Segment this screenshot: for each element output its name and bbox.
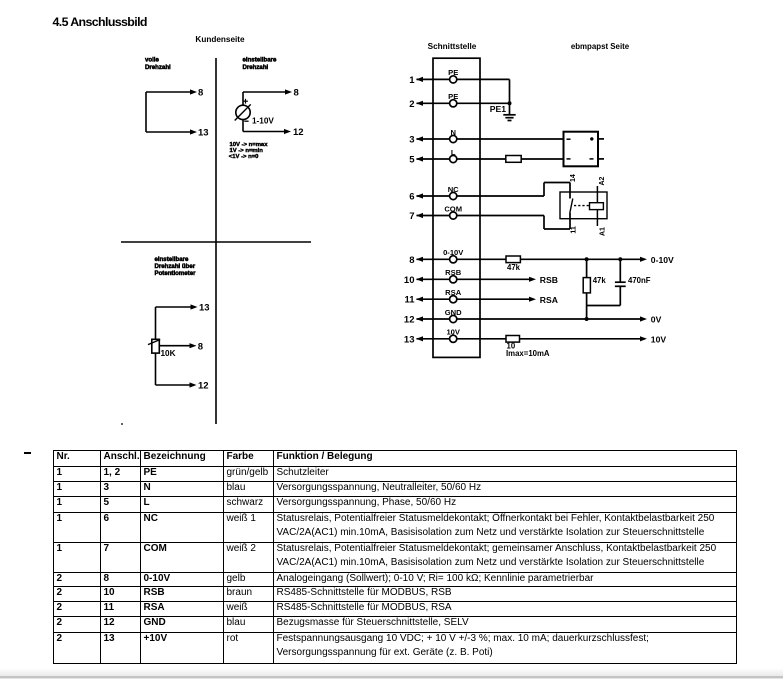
terminal circle pin 10 (450, 276, 457, 283)
terminal circle pin 11 (450, 296, 457, 303)
svg-text:COM: COM (444, 204, 462, 213)
svg-text:11: 11 (570, 226, 577, 234)
node 13 (full speed) (190, 128, 209, 139)
wire potentiometer top to 13 (156, 307, 192, 339)
node 8 (full speed) (190, 88, 203, 99)
svg-text:einstellbare: einstellbare (155, 256, 189, 263)
potentiometer R 10K (148, 339, 160, 353)
svg-text:3: 3 (409, 135, 414, 146)
terminal circle pin 6 (450, 192, 457, 199)
terminal circle pin 7 (450, 212, 457, 219)
arrow pin 8 (416, 257, 423, 262)
relay actuator block (590, 203, 604, 210)
svg-text:RSB: RSB (540, 275, 558, 285)
svg-text:8: 8 (409, 255, 414, 266)
label volle Drehzahl (145, 56, 171, 71)
svg-text:Drehzahl: Drehzahl (145, 64, 171, 71)
wire RC bottom bus (587, 306, 621, 320)
node 10V output (640, 334, 666, 344)
junction dot A (585, 257, 589, 261)
svg-text:Drehzahl: Drehzahl (243, 64, 269, 71)
label Schnittstelle (428, 42, 477, 51)
svg-text:2: 2 (409, 99, 414, 110)
svg-text:13: 13 (404, 334, 415, 345)
svg-text:N: N (450, 128, 455, 137)
svg-text:5: 5 (409, 155, 415, 166)
svg-text:einstellbare: einstellbare (243, 56, 277, 63)
wire full-speed bracket (146, 92, 191, 132)
arrow pin 6 (416, 193, 423, 198)
capacitor 470nF (615, 259, 626, 305)
svg-text:RSB: RSB (445, 268, 462, 277)
svg-text:PE: PE (448, 68, 458, 77)
speck (121, 423, 123, 425)
terminal circle pin 2 (450, 100, 457, 107)
terminal circle pin 3 (450, 135, 457, 142)
svg-text:10V: 10V (651, 334, 667, 344)
wire A2 (596, 186, 598, 203)
svg-text:RSA: RSA (445, 288, 462, 297)
svg-text:Imax=10mA: Imax=10mA (506, 349, 550, 358)
svg-text:0-10V: 0-10V (651, 255, 674, 265)
resistor 10 series (506, 336, 520, 343)
svg-text:6: 6 (409, 192, 414, 203)
svg-text:RSA: RSA (540, 295, 558, 305)
terminal circle pin 8 (450, 256, 457, 263)
value label 1-10V (252, 117, 274, 126)
pin 3 N row (417, 138, 564, 140)
svg-text:13: 13 (198, 128, 209, 139)
arrow pin 1 (416, 77, 423, 82)
terminal circle pin 12 (450, 315, 457, 322)
pin 2 PE row (417, 102, 510, 104)
resistor 47k series (506, 256, 520, 263)
junction dot C (585, 317, 589, 321)
svg-text:1-10V: 1-10V (252, 117, 274, 126)
label Imax=10mA (506, 349, 550, 358)
arrow pin 12 (416, 316, 423, 321)
svg-text:GND: GND (445, 308, 462, 317)
voltage source V1 1-10V (235, 104, 251, 120)
svg-text:12: 12 (198, 381, 209, 392)
pin 5 L row (417, 158, 564, 160)
divider vertical line (Kundenseite) (215, 58, 217, 424)
interface box (Schnittstelle) (433, 58, 480, 357)
wire potentiometer wiper to 8 (159, 345, 190, 347)
svg-text:10: 10 (404, 275, 415, 286)
wire voltage source to 12 (243, 120, 285, 132)
svg-text:10K: 10K (161, 349, 176, 358)
margin dash (24, 452, 32, 455)
node 13 (potentiometer) (191, 303, 210, 314)
wire potentiometer bottom to 12 (156, 353, 191, 385)
node 12 (adjustable) (284, 127, 304, 138)
minus sign (244, 120, 248, 122)
svg-text:8: 8 (294, 88, 299, 99)
svg-text:10V: 10V (446, 328, 460, 337)
arrow pin 3 (416, 136, 423, 141)
svg-text:0-10V: 0-10V (443, 248, 464, 257)
ground (503, 115, 515, 121)
label einstellbare Drehzahl ueber Potentiometer (155, 256, 197, 277)
pin 10 RSB row (417, 278, 531, 280)
relay K1 box (560, 192, 607, 219)
arrow pin 7 (416, 213, 423, 218)
terminal circle pin 13 (450, 335, 457, 342)
svg-text:ebmpapst Seite: ebmpapst Seite (571, 42, 630, 51)
svg-text:Kundenseite: Kundenseite (195, 35, 245, 44)
svg-text:12: 12 (293, 127, 304, 138)
node 0-10V output (640, 255, 674, 265)
pin 11 RSA row (417, 298, 531, 300)
pin label A2 (599, 176, 606, 185)
svg-text:12: 12 (404, 315, 415, 326)
node RSB (529, 275, 558, 285)
terminal circle pin 5 (450, 155, 457, 162)
motor block M (564, 132, 605, 167)
pin label 11 (570, 226, 577, 234)
pin label 14 (570, 174, 577, 182)
svg-text:Drehzahl über: Drehzahl über (155, 263, 196, 270)
section heading (53, 15, 147, 29)
svg-text:470nF: 470nF (628, 276, 651, 285)
svg-text:NC: NC (448, 185, 459, 194)
svg-text:L: L (451, 148, 456, 157)
node 8 (adjustable) (285, 88, 299, 99)
value label 10K (161, 349, 176, 358)
svg-text:<1V -> n=0: <1V -> n=0 (229, 154, 259, 160)
svg-text:volle: volle (145, 56, 159, 63)
bottom page edge strip (0, 668, 783, 679)
svg-text:1: 1 (409, 75, 415, 86)
wire PE drop to ground (509, 79, 511, 114)
PIN ROWS (417, 79, 675, 358)
svg-text:A1: A1 (599, 227, 606, 236)
svg-text:Schnittstelle: Schnittstelle (428, 42, 477, 51)
label Kundenseite (195, 35, 245, 44)
node 0V output (640, 315, 662, 325)
resistor 47k shunt (583, 259, 590, 305)
svg-text:47k: 47k (593, 276, 607, 285)
arrow pin 10 (416, 277, 423, 282)
svg-text:PE: PE (448, 92, 458, 101)
connection table (53, 450, 737, 664)
label PE1 (490, 104, 506, 114)
wire A1 (596, 210, 598, 226)
relay linkage dashed (574, 205, 590, 207)
relay contact arm (570, 199, 573, 214)
svg-text:47k: 47k (507, 263, 521, 272)
arrow pin 13 (416, 336, 423, 341)
node RSA (529, 295, 558, 305)
junction PE1 (508, 101, 512, 105)
label ebmpapst Seite (571, 42, 630, 51)
node 8 (potentiometer) (190, 341, 204, 352)
terminal circle pin 1 (450, 76, 457, 83)
schematic SVG (0, 0, 783, 448)
pin 13 10V row (417, 338, 642, 340)
svg-text:PE1: PE1 (490, 104, 506, 114)
junction dot B (618, 257, 622, 261)
svg-text:Potentiometer: Potentiometer (155, 270, 197, 277)
arrow pin 5 (416, 156, 423, 161)
svg-text:11: 11 (404, 295, 415, 306)
fuse F1 (506, 156, 521, 163)
svg-text:8: 8 (198, 341, 203, 352)
pin 1 PE row (417, 78, 510, 80)
pin 12 GND row (417, 318, 642, 320)
divider horizontal line (Kundenseite) (121, 241, 311, 243)
wire voltage source to 8 (243, 92, 286, 105)
svg-text:0V: 0V (651, 315, 662, 325)
terminal circles and labels (450, 76, 457, 343)
svg-text:A2: A2 (599, 176, 606, 185)
arrow pin 11 (416, 297, 423, 302)
pin 6 NC row (417, 183, 571, 199)
pin 8 0-10V row (417, 258, 642, 260)
svg-text:13: 13 (199, 303, 210, 314)
plus sign (243, 99, 248, 104)
arrow pin 2 (416, 101, 423, 106)
svg-text:8: 8 (198, 88, 203, 99)
note text n=max (229, 142, 268, 160)
pin label A1 (599, 227, 606, 236)
node 12 (potentiometer) (190, 381, 209, 392)
svg-text:14: 14 (570, 174, 577, 182)
label einstellbare Drehzahl (243, 56, 277, 71)
svg-text:7: 7 (409, 211, 414, 222)
pin 7 COM row (417, 213, 571, 229)
